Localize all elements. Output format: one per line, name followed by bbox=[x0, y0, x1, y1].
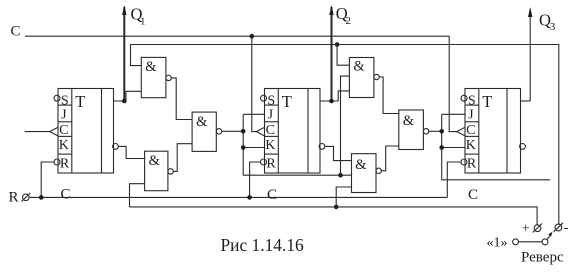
node junction C line to FF2 bbox=[250, 34, 255, 39]
wire Q2 output vertical bbox=[331, 7, 333, 101]
wire FF2 Q output bbox=[320, 91, 349, 101]
svg-text:Реверс: Реверс bbox=[521, 250, 564, 266]
node junction Q2 bbox=[329, 99, 334, 104]
and-gate DD4.2 output bubble bbox=[376, 168, 381, 173]
wire gate DD2.2 output to gate DD3.1 bbox=[173, 144, 192, 172]
svg-text:J: J bbox=[61, 108, 67, 123]
wire reverse line to gate DD2.1 top input bbox=[131, 45, 142, 66]
wire Q3 output vertical bbox=[529, 9, 531, 101]
node R input terminal symbol bbox=[22, 193, 31, 202]
node junction reverse line bbox=[335, 42, 340, 47]
and-gate DD2.1 output bubble bbox=[166, 75, 171, 80]
svg-text:&: & bbox=[145, 59, 157, 75]
svg-text:&: & bbox=[403, 113, 415, 129]
svg-text:T: T bbox=[75, 92, 85, 111]
node junction reset FF1 bbox=[39, 195, 44, 200]
svg-text:&: & bbox=[353, 59, 365, 75]
svg-text:&: & bbox=[355, 157, 367, 173]
flip-flop DD5 inverse output bubble bbox=[319, 144, 325, 150]
and-gate DD6.1 output bubble bbox=[423, 129, 428, 134]
svg-text:&: & bbox=[149, 153, 161, 169]
wire gate DD6.1 output to FF3 J/K bbox=[429, 130, 442, 132]
wire FF1 clock input stub bbox=[25, 131, 50, 133]
flip-flop DD1 body bbox=[58, 89, 114, 174]
svg-text:T: T bbox=[282, 92, 292, 111]
wire FF3 Q output bbox=[521, 100, 531, 102]
wire forward count line bbox=[130, 207, 538, 225]
wire switch link bbox=[518, 241, 542, 243]
switch SA1 pole bbox=[513, 239, 519, 245]
and-gate DD2.1 (top left) bbox=[141, 57, 166, 97]
wire FF2 K input bbox=[243, 147, 264, 149]
svg-text:R: R bbox=[467, 156, 477, 171]
wire FF2 R input to reset line bbox=[250, 162, 261, 197]
node junction JK net bbox=[338, 173, 343, 178]
wire FF2 J input bbox=[243, 113, 264, 115]
flip-flop DD7 inverse output bubble bbox=[520, 144, 526, 150]
wire FF3 J/K common vertical bbox=[441, 114, 443, 180]
svg-text:T: T bbox=[482, 92, 492, 111]
node junction reset FF2 bbox=[247, 195, 252, 200]
and-gate DD6.1 (middle right) bbox=[399, 110, 424, 150]
node Q3 arrowhead bbox=[528, 7, 532, 17]
wire JK net riser to gate DD4.1 bbox=[341, 76, 350, 175]
svg-text:-: - bbox=[564, 221, 569, 236]
wire J/K net under FF2 to gates bbox=[243, 174, 351, 176]
svg-text:C: C bbox=[266, 123, 275, 138]
switch SA1 common bbox=[542, 239, 548, 245]
flip-flop DD7 body bbox=[465, 89, 521, 174]
switch SA1 lever arrowhead bbox=[548, 232, 552, 237]
and-gate DD4.1 (top right) bbox=[349, 58, 374, 98]
svg-text:1: 1 bbox=[140, 16, 146, 28]
wire FF2 inverse Q to gate DD4.2 bbox=[325, 146, 352, 160]
node junction Q1 bbox=[122, 99, 127, 104]
wire reverse line to gate DD4.1 top input bbox=[337, 45, 349, 66]
flip-flop DD5 R inversion bubble bbox=[261, 159, 267, 165]
node junction J3 bbox=[439, 129, 444, 134]
svg-text:«1»: «1» bbox=[487, 236, 508, 251]
wire FF3 K input bbox=[442, 147, 465, 149]
flip-flop DD1 pin labels bbox=[59, 93, 70, 171]
wire FF2 J/K common vertical bbox=[242, 114, 244, 175]
node plus terminal symbol bbox=[533, 224, 542, 233]
and-gate DD3.1 (middle) bbox=[192, 112, 216, 151]
switch SA1 lever bbox=[547, 235, 551, 240]
svg-text:R: R bbox=[9, 190, 19, 206]
wire gate DD4.2 output to gate DD6.1 bbox=[381, 146, 398, 171]
wire gate DD4.1 output to gate DD6.1 bbox=[379, 77, 399, 114]
wire JK3 net under FF3 stub bbox=[442, 179, 550, 181]
wire FF3 R input to reset line bbox=[447, 162, 461, 197]
svg-text:K: K bbox=[265, 138, 275, 153]
flip-flop DD5 S inversion bubble bbox=[261, 95, 267, 101]
flip-flop DD7 C dynamic input triangle bbox=[457, 127, 465, 136]
svg-text:S: S bbox=[61, 93, 69, 108]
flip-flop DD1 R inversion bubble bbox=[54, 159, 60, 165]
wire FF1 inverse Q to AND gate bbox=[118, 146, 144, 158]
svg-text:&: & bbox=[196, 114, 208, 130]
svg-text:S: S bbox=[468, 93, 476, 108]
wire FF1 R input to reset line bbox=[41, 162, 54, 197]
node minus terminal symbol bbox=[554, 223, 563, 232]
flip-flop DD7 S inversion bubble bbox=[461, 95, 467, 101]
svg-text:K: K bbox=[59, 138, 69, 153]
svg-text:J: J bbox=[268, 108, 274, 123]
wire gate DD3.1 output to FF2 J/K bbox=[222, 130, 244, 132]
svg-text:C: C bbox=[59, 123, 68, 138]
and-gate DD4.1 output bubble bbox=[374, 74, 379, 79]
svg-text:C: C bbox=[61, 187, 71, 203]
node junction J/K at gate output bbox=[241, 129, 246, 134]
node Q1 arrowhead bbox=[122, 5, 126, 15]
wire FF3 J input bbox=[442, 113, 465, 115]
svg-text:C: C bbox=[267, 187, 277, 203]
node junction count line bbox=[334, 205, 339, 210]
flip-flop DD5 C dynamic input triangle bbox=[256, 127, 264, 136]
flip-flop DD1 inverse output bubble bbox=[113, 144, 119, 150]
flip-flop DD5 body bbox=[265, 89, 321, 174]
and-gate DD2.2 (bottom left) bbox=[145, 151, 168, 191]
and-gate DD3.1 output bubble bbox=[216, 129, 221, 134]
wire C line top bbox=[25, 35, 449, 37]
svg-text:R: R bbox=[266, 156, 276, 171]
svg-text:+: + bbox=[522, 221, 530, 236]
svg-text:C: C bbox=[466, 123, 475, 138]
wire gate DD2.1 output to gate DD3.1 bbox=[171, 78, 192, 120]
and-gate DD4.2 (bottom right) bbox=[352, 154, 377, 193]
svg-text:K: K bbox=[466, 138, 476, 153]
wire C line drop to FF2 clock bbox=[252, 36, 256, 131]
svg-text:R: R bbox=[60, 156, 70, 171]
svg-text:2: 2 bbox=[346, 15, 352, 27]
wire reset line bbox=[29, 196, 447, 198]
flip-flop DD5 pin labels bbox=[265, 93, 276, 171]
wire count line to gate DD2.2 lower input bbox=[130, 184, 145, 207]
wire reverse control line bbox=[131, 45, 559, 225]
node junction K bbox=[241, 145, 246, 150]
wire C line drop to FF3 clock bbox=[449, 36, 457, 131]
wire FF1 Q output bbox=[114, 91, 142, 101]
wire Q1 output vertical bbox=[123, 7, 125, 101]
node Q2 arrowhead bbox=[329, 5, 333, 15]
flip-flop DD7 pin labels bbox=[466, 93, 477, 171]
svg-text:C: C bbox=[11, 24, 21, 40]
svg-text:C: C bbox=[468, 187, 478, 203]
and-gate DD2.2 output bubble bbox=[168, 169, 173, 174]
node junction K3 bbox=[439, 145, 444, 150]
wire count line to gate DD4.2 lower input bbox=[336, 187, 351, 207]
svg-text:J: J bbox=[468, 108, 474, 123]
svg-text:S: S bbox=[267, 93, 275, 108]
flip-flop DD7 R inversion bubble bbox=[461, 159, 467, 165]
svg-text:Рис 1.14.16: Рис 1.14.16 bbox=[221, 235, 305, 255]
flip-flop DD1 S inversion bubble bbox=[54, 95, 60, 101]
flip-flop DD1 C dynamic input triangle bbox=[50, 127, 58, 136]
svg-text:3: 3 bbox=[550, 21, 556, 33]
